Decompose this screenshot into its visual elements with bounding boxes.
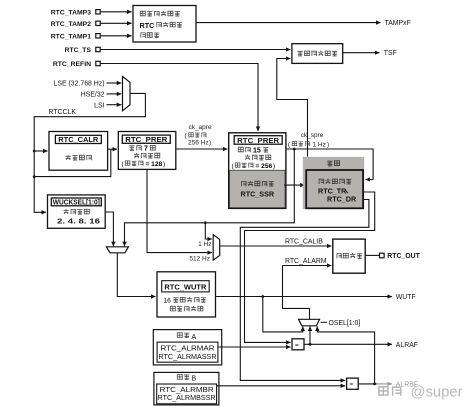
svg-text:= 256: = 256	[256, 163, 273, 170]
box: output control	[333, 239, 365, 273]
wire shadow SSR to calendar TR/DR	[284, 184, 305, 186]
svg-text:RTC_PRER: RTC_PRER	[125, 135, 168, 144]
svg-text:RTC_SSR: RTC_SSR	[241, 190, 275, 199]
wire RTC_ALARM from OSEL mux (up the jog)	[283, 266, 310, 320]
svg-text:): )	[327, 141, 329, 148]
node ck_apre label	[185, 124, 212, 146]
line: 预分频器	[134, 153, 160, 158]
mux: OSEL output select	[299, 319, 320, 326]
wire 1 Hz branch from ck_spre line to calib mux	[205, 223, 212, 239]
svg-text:1 Hz: 1 Hz	[198, 241, 211, 248]
box: RTC_CALR smooth calibration	[49, 132, 108, 171]
pin RTC_TAMP3	[51, 9, 100, 16]
svg-text:RTC_ALRMASSR: RTC_ALRMASSR	[159, 354, 217, 361]
svg-text:(: (	[185, 133, 188, 140]
svg-text:=: =	[350, 381, 354, 388]
svg-text:ALRAF: ALRAF	[396, 342, 418, 349]
svg-text:ck_spre: ck_spre	[301, 132, 324, 139]
svg-text:RTC_TAMP1: RTC_TAMP1	[51, 33, 91, 40]
wire RTC_TS to timestamp box	[101, 49, 291, 51]
junction dot ck_spre	[293, 148, 296, 151]
wire branch RTCCLK to RTC_CALR	[34, 150, 47, 152]
wire OSEL input stub from ALRBF line	[317, 326, 374, 384]
wire wakeup mux output to RTC_WUTR	[117, 253, 155, 297]
svg-text:): )	[273, 163, 275, 170]
wire calendar output to comparator B	[240, 200, 369, 381]
box: RTC_WUTR 16-bit wakeup auto-reload	[157, 272, 216, 317]
line: 预分频器	[245, 155, 271, 160]
wire RTC_CALIB to output control	[220, 245, 332, 247]
svg-text:): )	[163, 161, 165, 168]
pin RTC_OUT	[380, 253, 421, 260]
wire calendar to timestamp box	[277, 59, 308, 157]
wire RTC_REFIN down to synchronous prescaler	[101, 64, 258, 132]
wire ck_spre from sync prescaler to calendar	[286, 149, 373, 180]
node ck_spre label	[288, 132, 329, 149]
wire ALRAF output	[304, 343, 392, 345]
pin RTC_TS	[65, 47, 101, 54]
junction dot RTCCLK/CALR	[33, 150, 36, 153]
svg-text:TSF: TSF	[384, 50, 397, 57]
svg-text:WUTF: WUTF	[396, 294, 416, 301]
box: alarm A registers	[153, 330, 221, 365]
line: （默认值 = 256）	[232, 163, 276, 170]
comparator A (=)	[292, 339, 304, 350]
svg-text:256 Hz: 256 Hz	[188, 140, 209, 147]
svg-text:RTC_WUTR: RTC_WUTR	[164, 282, 207, 291]
junction dot ALRBF branch	[373, 383, 376, 386]
wire RTC_ALARM to output control	[283, 265, 332, 267]
svg-text:OSEL[1:0]: OSEL[1:0]	[329, 320, 361, 327]
wire LSI to clock mux	[107, 104, 122, 106]
line: 同步 15 位	[238, 147, 268, 154]
wire branch RTCCLK around CALR to async prescaler	[34, 149, 111, 176]
svg-text:= 128: = 128	[146, 161, 163, 168]
svg-text:15: 15	[253, 147, 261, 154]
wire TSF output	[343, 52, 380, 54]
mux: wakeup clock select	[106, 247, 128, 253]
wire alarm A registers to comparator A	[218, 346, 291, 348]
box: asynchronous 7-bit prescaler RTC_PRER	[118, 132, 176, 170]
wire RTC_TAMP3 to tamper box	[101, 11, 132, 13]
wire OSEL input stub from WUTF line	[263, 297, 303, 332]
svg-text:16: 16	[164, 297, 172, 304]
svg-text:LSE (32.768 Hz): LSE (32.768 Hz)	[54, 81, 105, 88]
svg-text:RTC_OUT: RTC_OUT	[387, 253, 420, 260]
junction dot RTCCLK lower branch	[33, 175, 36, 178]
svg-text:TAMPxF: TAMPxF	[385, 20, 411, 27]
junction dot WUTF branch	[261, 295, 264, 298]
watermark 知乎 @super	[379, 384, 463, 400]
box: shadow register RTC_SSR	[230, 170, 285, 207]
svg-text:): )	[209, 140, 211, 147]
svg-text:WUCKSEL[1:0]: WUCKSEL[1:0]	[53, 198, 100, 207]
svg-text:RTC_PRER: RTC_PRER	[237, 136, 280, 145]
svg-text:2. 4. 8. 16: 2. 4. 8. 16	[57, 218, 100, 225]
svg-text:HSE/32: HSE/32	[81, 92, 105, 99]
svg-text:RTC_CALIB: RTC_CALIB	[285, 239, 323, 246]
pin RTC_REFIN	[53, 61, 100, 68]
svg-text:RTC_ALRMBSSR: RTC_ALRMBSSR	[158, 395, 216, 402]
svg-text:RTC_REFIN: RTC_REFIN	[53, 61, 91, 68]
box: shadow registers RTC_TR RTC_DR	[306, 170, 363, 208]
wire ck_spre branch down to wakeup mux	[125, 149, 295, 246]
box: timestamp register	[292, 44, 343, 64]
wire RTC_OUT	[365, 254, 379, 256]
watermark halo	[377, 375, 474, 400]
svg-text:=: =	[295, 342, 299, 349]
pin RTC_TAMP2	[51, 21, 100, 28]
svg-text:RTC_TAMP3: RTC_TAMP3	[51, 9, 91, 16]
junction dot ALRAF branch	[309, 343, 312, 346]
svg-text:RTCCLK: RTCCLK	[49, 109, 77, 116]
box: backup registers and RTC tamper control registers	[133, 6, 196, 43]
box: alarm B registers	[154, 372, 219, 405]
svg-text:RTC_ALRMBR: RTC_ALRMBR	[160, 387, 214, 394]
wire calendar output to comparator A	[245, 192, 375, 342]
wire ck_apre async to sync prescaler	[176, 148, 228, 150]
comparator B (=)	[347, 378, 359, 389]
box: synchronous 15-bit prescaler RTC_PRER	[229, 133, 286, 209]
wire LSE to clock mux	[107, 82, 122, 84]
line: 16 位唤醒自动	[164, 297, 207, 304]
wire WUTF output	[216, 296, 393, 298]
wire RTC_TAMP2 to tamper box	[101, 22, 132, 24]
svg-text:1 Hz: 1 Hz	[313, 141, 326, 148]
wire HSE to clock mux	[107, 93, 122, 95]
wire OSEL input stub from ALRAF line	[309, 326, 311, 344]
svg-text:RTC: RTC	[140, 21, 155, 30]
wire WUCKSEL output to wakeup mux	[105, 212, 113, 246]
line: 异步 7 位	[129, 145, 155, 152]
wire TAMPxF output	[196, 22, 381, 24]
svg-text:RTC_ALARM: RTC_ALARM	[285, 258, 327, 265]
svg-text:B: B	[192, 376, 197, 383]
svg-text:A: A	[192, 334, 197, 341]
box: calendar (grey area)	[303, 157, 364, 209]
svg-text:512 Hz: 512 Hz	[189, 255, 210, 262]
wire RTC_CALR to async prescaler	[108, 148, 117, 150]
svg-text:RTC_TAMP2: RTC_TAMP2	[51, 21, 91, 28]
svg-text:7: 7	[144, 146, 148, 153]
wire OSEL dash	[321, 321, 328, 323]
svg-text:ck_apre: ck_apre	[188, 124, 212, 131]
svg-text:RTC_ALRMAR: RTC_ALRMAR	[161, 346, 215, 353]
svg-text:LSI: LSI	[94, 102, 104, 109]
wire alarm B registers to comparator B	[217, 385, 346, 387]
line: 重载寄存器	[170, 306, 203, 311]
wire async prescaler down (512 Hz) to calib mux	[147, 169, 212, 252]
pin RTC_TAMP1	[51, 33, 100, 40]
wire RTC_TAMP1 to tamper box	[101, 35, 132, 37]
mux: calibration output select	[213, 235, 220, 261]
junction dot 1 Hz	[204, 221, 207, 224]
svg-text:RTC_TS: RTC_TS	[65, 47, 92, 54]
box: WUCKSEL[1:0] prescaler	[48, 195, 106, 228]
svg-text:(: (	[288, 141, 291, 148]
wire RTCCLK from mux down the left trunk to WUCKSEL prescaler	[34, 93, 145, 212]
mux: clock source select	[123, 77, 131, 111]
svg-text:RTC_CALR: RTC_CALR	[58, 135, 99, 144]
svg-text:@super: @super	[411, 384, 463, 400]
wire ALRBF output	[358, 383, 392, 385]
svg-text:RTC_DR: RTC_DR	[327, 194, 357, 203]
line: （默认值 = 128）	[122, 161, 166, 168]
